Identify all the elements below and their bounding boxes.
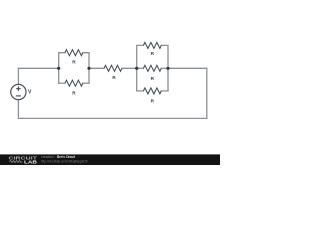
svg-text:http://circuitlab.com/c/5kq6by: http://circuitlab.com/c/5kq6byqp025 [41, 159, 88, 163]
svg-text:LAB: LAB [24, 159, 37, 164]
